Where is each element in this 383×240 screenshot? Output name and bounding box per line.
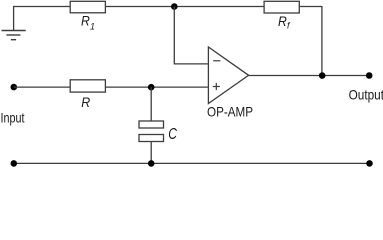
wire input to R <box>14 86 70 88</box>
svg-text:1: 1 <box>90 21 95 31</box>
wire bottom rail <box>14 162 370 164</box>
op-amp U1 <box>208 47 248 104</box>
wire feedback down to inverting input <box>174 7 208 64</box>
wire capacitor to bottom rail <box>150 142 152 164</box>
node junction top <box>171 3 178 10</box>
wire R1 to Rf <box>105 6 264 8</box>
resistor R <box>70 80 105 92</box>
resistor R1 <box>70 1 105 13</box>
wire node to capacitor <box>150 87 152 121</box>
svg-text:C: C <box>168 126 177 143</box>
bottom left terminal <box>11 160 18 167</box>
capacitor C <box>139 121 164 128</box>
svg-text:Input: Input <box>1 109 25 125</box>
svg-text:R: R <box>81 94 90 110</box>
output terminal <box>366 72 373 79</box>
svg-text:Output: Output <box>349 87 383 102</box>
ground <box>2 31 26 40</box>
wire top rail from ground corner to R1 <box>14 7 70 31</box>
svg-text:OP-AMP: OP-AMP <box>207 105 253 120</box>
node junction mid <box>148 84 155 91</box>
svg-text:R: R <box>278 14 287 29</box>
node bottom capacitor junction <box>148 160 155 167</box>
resistor Rf <box>264 1 299 13</box>
wire Rf to output node <box>299 7 322 76</box>
node output junction <box>319 72 326 79</box>
bottom right terminal <box>366 160 373 167</box>
wire output <box>249 75 370 77</box>
svg-text:R: R <box>81 14 90 29</box>
input terminal <box>11 84 18 91</box>
wire R to non-inverting input <box>105 86 207 88</box>
